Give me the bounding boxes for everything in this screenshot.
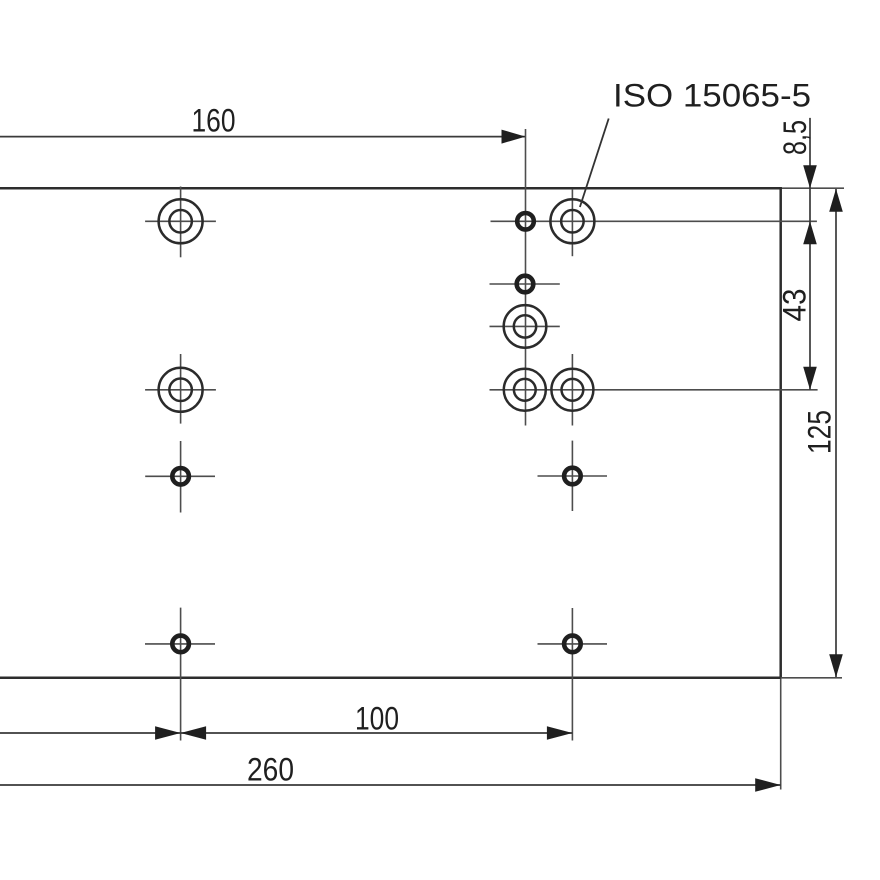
- hole B2 crosshair: [490, 283, 560, 285]
- plate right edge: [779, 187, 782, 678]
- svg-text:125: 125: [802, 410, 838, 454]
- 100 right arrowhead (points right): [547, 726, 573, 740]
- row 2 long crosshair line: [490, 389, 818, 391]
- svg-text:100: 100: [355, 701, 399, 737]
- svg-text:160: 160: [192, 102, 236, 138]
- hole C1 crosshair vertical: [571, 189, 573, 256]
- 125 up arrowhead: [829, 189, 843, 212]
- right edge extension down: [780, 678, 782, 790]
- top extension line right: [781, 187, 844, 189]
- dimension 260 line: [0, 784, 781, 786]
- hole B3 (counterbored, col 2 middle): [504, 305, 547, 348]
- column-2 long center line: [525, 129, 527, 426]
- hole B4 (counterbored, col 2 row 2): [504, 369, 546, 411]
- 8,5 down arrowhead: [803, 165, 817, 188]
- plate top edge: [0, 187, 781, 190]
- hole A4 (small ring, col 1 bottom): [172, 636, 189, 653]
- hole A1 crosshair: [145, 220, 216, 222]
- hole A3 (small ring, col 1): [172, 468, 189, 485]
- 43 down arrowhead: [803, 367, 817, 390]
- hole A2 (counterbored, col 1 row 2): [159, 368, 203, 412]
- dimension 160 arrowhead: [502, 130, 526, 144]
- hole B3 crosshair: [490, 325, 560, 327]
- hole B2 (small thick ring, col 2): [517, 276, 534, 293]
- hole C1 (counterbored, col 3 row 1): [550, 199, 594, 243]
- 43 up arrowhead: [803, 221, 817, 244]
- svg-text:260: 260: [247, 752, 294, 788]
- plate bottom edge: [0, 677, 781, 680]
- 100 left arrowhead (points left): [181, 726, 207, 740]
- hole A4 crosshair: [145, 643, 215, 645]
- svg-text:8,5: 8,5: [777, 120, 813, 155]
- hole A2 crosshair: [145, 389, 216, 391]
- hole C3 (small ring, col 3): [564, 468, 581, 485]
- hole C4 (small ring, col 3 bottom): [564, 636, 581, 653]
- dimension 100 line: [0, 732, 572, 734]
- 125 down arrowhead: [829, 654, 843, 677]
- hole C2 crosshair vertical: [571, 354, 573, 426]
- svg-text:43: 43: [777, 289, 813, 322]
- hole A3 crosshair: [145, 475, 215, 477]
- hole A1 (counterbored, col 1 row 1): [159, 199, 203, 243]
- row 1 long crosshair line: [491, 220, 817, 222]
- 260 right arrowhead: [755, 778, 781, 792]
- bottom extension line right: [781, 677, 842, 679]
- hole C2 (counterbored, col 3 row 2): [551, 369, 593, 411]
- leader line to ISO callout: [580, 119, 609, 208]
- chained dimension arrowhead (points right, tip at col 1): [155, 726, 181, 740]
- dimension 160 line: [0, 136, 526, 138]
- hole C3 crosshair: [538, 475, 608, 477]
- hole B1 (small thick ring, col 2 row 1): [517, 213, 534, 230]
- dimension line 125: [835, 189, 837, 677]
- svg-text:ISO 15065-5: ISO 15065-5: [613, 78, 811, 114]
- dimension line 8,5 / 43: [809, 118, 811, 390]
- hole C4 crosshair: [538, 643, 608, 645]
